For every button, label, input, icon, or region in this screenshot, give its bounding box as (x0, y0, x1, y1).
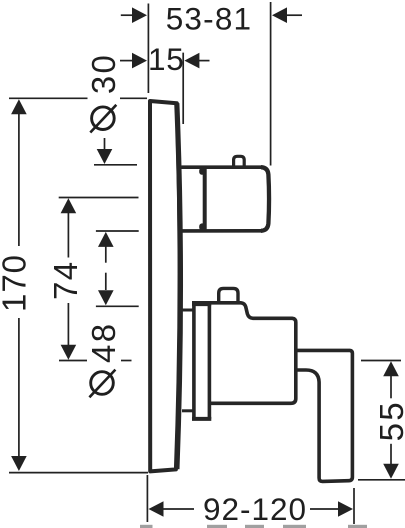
wire: 74 shaft upper (67, 213, 69, 258)
arrow 92-120 right (338, 501, 353, 517)
wire: 55 shaft upper (390, 376, 392, 399)
lever handle (296, 350, 353, 481)
arrow 55 top (383, 361, 399, 376)
arrow 15 left (132, 53, 147, 69)
diameter symbol of Ø48 (91, 372, 114, 395)
wire: Ø48 shaft lower (105, 273, 107, 290)
arrow 74 bottom (61, 345, 77, 360)
wire: 55 top tick (361, 360, 401, 362)
wire: 15 left tail (120, 60, 133, 62)
flange tab top (199, 168, 206, 175)
thermostat knob flange line (203, 169, 207, 231)
wire: 55 bottom tick (358, 479, 405, 481)
svg-text:92-120: 92-120 (203, 491, 307, 527)
wire: 15 right extension line (182, 53, 184, 124)
wire: 170 shaft lower (18, 318, 20, 457)
lower valve stub (cartridge top) (219, 288, 238, 302)
wire: 92-120 left shaft (163, 508, 194, 510)
arrow Ø30 down (97, 149, 113, 164)
arrow 53-81 right (272, 7, 287, 23)
flange tab bottom (199, 223, 206, 230)
wire: 15 right tail (198, 60, 210, 62)
wire: 53-81 left extension line (147, 4, 149, 94)
wire: Ø48 shaft upper (105, 247, 107, 263)
lower valve: plate-to-sleeve connector top (182, 309, 193, 312)
plate front edge (thicker) (177, 103, 181, 469)
wire: top extension segment left (9, 97, 88, 99)
svg-text:30: 30 (85, 53, 122, 94)
wire: 74 shaft lower (67, 303, 69, 346)
wire: 55 shaft lower (390, 444, 392, 464)
arrow 55 bottom (383, 464, 399, 479)
arrow 53-81 left (132, 7, 147, 23)
wire: 53-81 right extension line (270, 2, 272, 166)
wire: 170 shaft upper (18, 114, 20, 247)
wire: 74 top tick (59, 197, 139, 199)
diameter symbol of Ø30 (92, 107, 115, 130)
wire: Ø48 top tick (96, 230, 139, 232)
wire: 92-120 right shaft (310, 508, 339, 510)
arrow 170 top (11, 99, 27, 114)
wire: 74 bottom tick left (59, 360, 87, 362)
svg-text:170: 170 (0, 254, 33, 312)
lower valve: plate-to-sleeve connector bottom (182, 409, 193, 412)
lower valve body (hub) (192, 303, 296, 404)
svg-text:55: 55 (373, 400, 405, 441)
wire: Ø30 arrow shaft (104, 138, 106, 150)
arrow Ø48 top (98, 232, 114, 247)
wire: 53-81 left tail (121, 14, 133, 16)
wire: 92-120 right extension line (353, 488, 355, 524)
arrow 170 bottom (11, 456, 27, 471)
svg-text:15: 15 (148, 41, 185, 77)
wire: 53-81 right tail (286, 14, 302, 16)
cut-off text row at bottom (140, 525, 367, 528)
svg-text:53-81: 53-81 (166, 0, 253, 36)
wire: Ø30 bottom tick (94, 164, 137, 166)
svg-text:48: 48 (85, 322, 122, 363)
lower valve sleeve bottom edge (192, 417, 211, 421)
arrow 92-120 left (149, 501, 164, 517)
wire: 74 bottom tick right (121, 360, 132, 362)
arrow 74 top (61, 198, 77, 213)
knob front edge (thicker) (261, 167, 269, 231)
thermostat knob sleeve + body outline (182, 167, 270, 231)
arrow Ø48 bottom (98, 290, 114, 305)
arrow 15 right (184, 53, 199, 69)
wall plate (escutcheon) (150, 101, 180, 471)
lower valve sleeve (192, 303, 211, 419)
wire: Ø48 bottom tick (96, 305, 139, 307)
wire: top extension segment right (120, 97, 147, 99)
button on thermostat knob (234, 156, 245, 166)
svg-text:74: 74 (47, 261, 84, 300)
wire: 92-120 left extension line (146, 475, 148, 522)
wire: bottom extension line (9, 472, 148, 474)
